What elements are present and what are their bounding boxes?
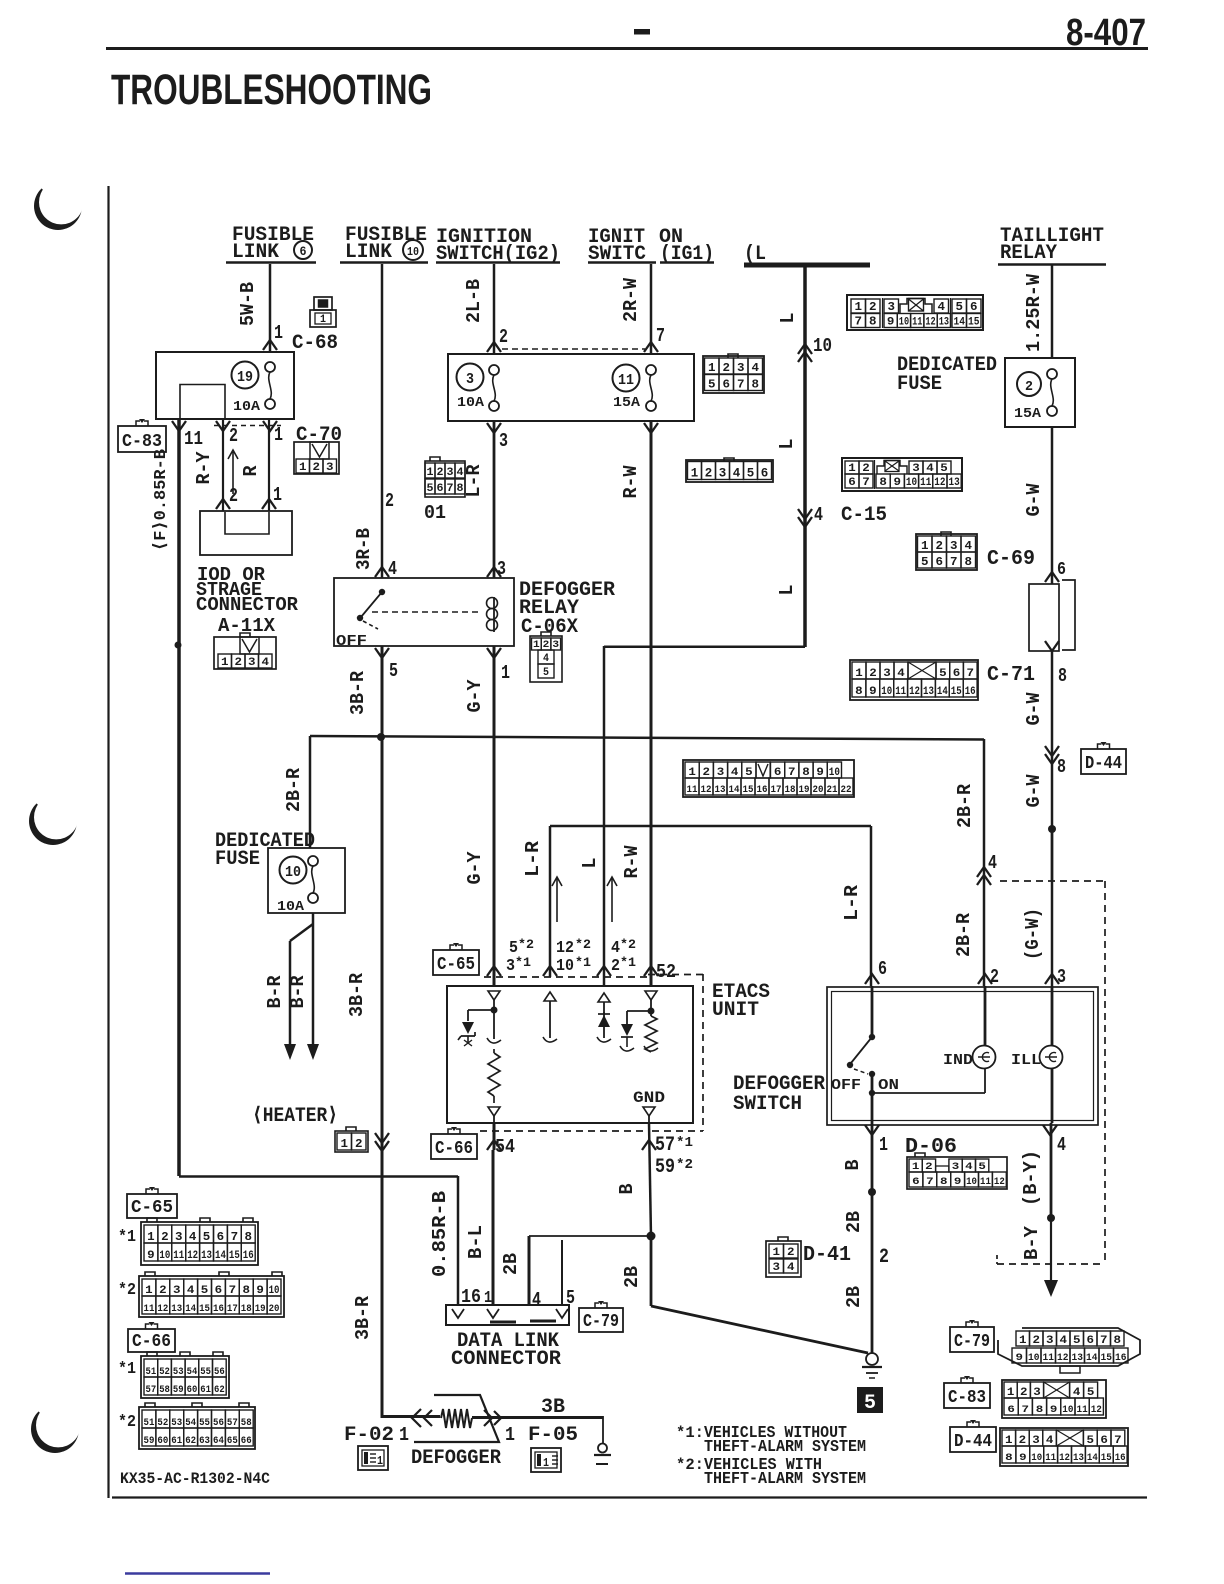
svg-text:(G-W): (G-W) [1022, 908, 1044, 960]
svg-text:L: L [579, 858, 601, 869]
svg-text:20: 20 [269, 1304, 280, 1315]
wire label 5W-B [237, 282, 259, 326]
ETACS dashed boundary right [648, 974, 703, 1131]
svg-text:57: 57 [146, 1385, 157, 1396]
fuse F11 rating 15A [613, 395, 641, 411]
svg-text:TROUBLESHOOTING: TROUBLESHOOTING [111, 66, 432, 114]
connector C-66 *1 pinout 12-pin [141, 1352, 229, 1398]
svg-text:14: 14 [1086, 1353, 1098, 1364]
svg-text:1: 1 [708, 361, 716, 375]
svg-text:2B-R: 2B-R [954, 783, 976, 828]
svg-text:10: 10 [269, 1285, 280, 1297]
pin label 1 [484, 1289, 492, 1308]
wire 3B-R from relay pin 5 [381, 646, 384, 1418]
svg-text:2L-B: 2L-B [463, 279, 485, 323]
svg-text:14: 14 [729, 785, 740, 796]
svg-text:01: 01 [424, 502, 446, 524]
svg-text:7: 7 [1114, 1435, 1122, 1447]
svg-text:6: 6 [761, 466, 769, 481]
svg-text:10: 10 [881, 686, 892, 698]
ground G1 [862, 1353, 882, 1378]
relay mechanical link dashes [372, 611, 480, 613]
pin 11 exit [172, 421, 203, 450]
svg-text:13: 13 [923, 686, 934, 698]
svg-text:*2: *2 [575, 937, 591, 952]
connector A-11X pinout [214, 633, 276, 669]
pin chevrons into ETACS [487, 966, 658, 976]
svg-text:*1: *1 [118, 1360, 136, 1379]
ETACS pin terminal L-R [543, 992, 557, 1042]
defogger grid element [414, 1395, 501, 1442]
wire label G-Y [464, 851, 486, 885]
wire label (F)0.85R-B [152, 449, 171, 551]
svg-text:8: 8 [940, 1177, 948, 1188]
connector pinout 6-pin (1-6) [686, 458, 773, 482]
switch contact [847, 986, 875, 1123]
svg-text:3: 3 [248, 657, 256, 669]
svg-text:R: R [240, 465, 262, 477]
wire label 3B [541, 1396, 565, 1419]
pin label 4*2 2*1 [611, 937, 636, 976]
svg-text:2: 2 [385, 490, 394, 512]
pin 1 exit of relay [487, 648, 510, 684]
svg-text:D-44: D-44 [1085, 754, 1122, 774]
wire (B-Y) from switch pin 4 [1050, 1123, 1053, 1218]
svg-text:6: 6 [723, 378, 731, 392]
svg-text:2: 2 [159, 1285, 167, 1297]
svg-text:14: 14 [1087, 1453, 1098, 1464]
svg-text:4: 4 [187, 1285, 195, 1297]
svg-text:RELAY: RELAY [1000, 242, 1057, 265]
pin 54 exit chevron [487, 1123, 501, 1150]
svg-text:G-Y: G-Y [464, 679, 486, 713]
svg-text:3R-B: 3R-B [353, 528, 375, 570]
wire label 2B-R [283, 767, 305, 812]
wire label G-W [1023, 483, 1045, 517]
connector C-65 *2 pinout 20-pin [139, 1272, 284, 1317]
svg-text:14: 14 [937, 686, 948, 698]
svg-text:FUSE: FUSE [215, 848, 260, 871]
svg-text:10A: 10A [233, 399, 261, 415]
lamp IND [943, 1046, 996, 1070]
svg-text:20: 20 [813, 785, 824, 796]
wire label 2R-W [620, 277, 642, 322]
svg-text:2: 2 [723, 361, 731, 375]
svg-text:3B-R: 3B-R [352, 1295, 374, 1340]
svg-text:65: 65 [227, 1436, 238, 1447]
svg-text:3: 3 [173, 1285, 181, 1297]
svg-text:7: 7 [231, 1230, 239, 1244]
svg-text:1: 1 [147, 1230, 155, 1244]
svg-text:8: 8 [1114, 1335, 1122, 1347]
ETACS resistor [488, 1049, 500, 1103]
lamp ILL [1011, 1046, 1063, 1070]
wire label G-W [1023, 774, 1045, 808]
label OFF inside relay [336, 633, 367, 650]
wire B-Y continues off page [1044, 1218, 1058, 1297]
svg-text:3: 3 [717, 767, 725, 779]
connector C-83 label [118, 419, 166, 452]
wire label 0.85R-B [429, 1191, 451, 1277]
label OFF [831, 1077, 861, 1094]
connector crossing pin 4 [977, 852, 997, 885]
svg-text:B: B [842, 1160, 864, 1171]
connector D-44 legend label [950, 1420, 996, 1452]
svg-text:2: 2 [990, 966, 999, 988]
connector C-65 legend label [127, 1187, 177, 1218]
svg-text:4: 4 [814, 504, 823, 526]
svg-text:1: 1 [773, 1247, 781, 1259]
svg-text:10: 10 [285, 864, 301, 881]
svg-text:9: 9 [147, 1250, 155, 1262]
label DEFOGGER [411, 1447, 501, 1470]
svg-text:4: 4 [787, 1262, 795, 1274]
svg-text:2B: 2B [500, 1253, 522, 1275]
wire 0.85R-B horizontal [179, 1176, 458, 1306]
svg-text:2B: 2B [843, 1211, 865, 1233]
label DEFOGGER RELAY C-06X [519, 579, 615, 639]
svg-text:3B-R: 3B-R [347, 670, 369, 715]
source label TAILLIGHT RELAY [998, 225, 1106, 265]
svg-text:1: 1 [879, 1134, 888, 1156]
wire label L-R [463, 464, 485, 498]
svg-text:3: 3 [1046, 1335, 1054, 1347]
svg-text:3: 3 [888, 300, 896, 314]
source label IGNITION SWITCH(IG2) [436, 226, 560, 266]
connector C-65 label [433, 943, 479, 975]
svg-text:61: 61 [200, 1385, 211, 1396]
svg-text:THEFT-ALARM SYSTEM: THEFT-ALARM SYSTEM [704, 1438, 866, 1457]
svg-text:5: 5 [939, 668, 947, 680]
svg-text:G-Y: G-Y [464, 851, 486, 885]
ground G2 [594, 1416, 611, 1464]
pin 4 into defogger relay [375, 558, 397, 580]
svg-text:7: 7 [950, 555, 958, 569]
label F-02 pin 1 [344, 1424, 409, 1447]
svg-text:5: 5 [1073, 1335, 1081, 1347]
svg-text:10A: 10A [457, 395, 485, 411]
svg-text:2: 2 [229, 425, 238, 447]
svg-text:59: 59 [144, 1436, 155, 1447]
svg-text:SWITCH: SWITCH [733, 1093, 802, 1116]
svg-text:6: 6 [1057, 560, 1066, 580]
wire label L [777, 313, 799, 324]
page number 8-407 [1066, 12, 1146, 54]
wire label R [240, 465, 262, 477]
label (HEATER) [252, 1105, 338, 1128]
ETACS pin terminal L [597, 993, 611, 1042]
wire 2R-W from ignition switch IG1 [650, 264, 653, 354]
note *2 [118, 1281, 136, 1300]
note *2 [118, 1413, 136, 1432]
wire G-W below fuse F2 [1051, 427, 1054, 584]
svg-text:5W-B: 5W-B [237, 282, 259, 326]
svg-text:19: 19 [799, 785, 810, 796]
svg-text:3: 3 [773, 1262, 781, 1274]
label F-05 pin 1 [505, 1424, 578, 1447]
svg-text:B-L: B-L [465, 1225, 487, 1259]
svg-text:1: 1 [505, 1424, 515, 1446]
wire 3B to ground [472, 1416, 603, 1419]
svg-text:8: 8 [879, 477, 887, 489]
pin 2 exit [216, 421, 238, 447]
wire L bend to ETACS [604, 646, 805, 986]
svg-text:16: 16 [1115, 1353, 1127, 1364]
source label FUSIBLE LINK (10) [340, 224, 428, 264]
page header dash [634, 29, 650, 35]
pin label 16 [461, 1286, 481, 1308]
wire label B-L [465, 1225, 487, 1259]
svg-text:13: 13 [949, 477, 961, 489]
pin label 5 [566, 1287, 575, 1309]
svg-text:2: 2 [611, 957, 620, 976]
wire B from switch pin 1 [871, 1123, 874, 1353]
svg-text:6: 6 [1100, 1435, 1108, 1447]
wire (G-W) into switch pin 3 [1051, 829, 1054, 986]
fuse F3 element [489, 365, 499, 411]
svg-text:10: 10 [1062, 1405, 1073, 1416]
svg-text:62: 62 [214, 1385, 225, 1396]
fuse F11 element [646, 365, 656, 411]
wire 2B-R horizontal distribution [310, 736, 984, 848]
svg-text:L-R: L-R [522, 840, 544, 877]
connector 1|2 pinout [335, 1127, 368, 1152]
svg-text:1: 1 [921, 539, 929, 553]
svg-text:2B: 2B [621, 1266, 643, 1288]
source label (L [744, 243, 766, 266]
svg-text:4: 4 [752, 361, 760, 375]
pin 3 into defogger relay [487, 558, 506, 580]
svg-text:1: 1 [688, 767, 696, 779]
fuse F11 designator [613, 365, 640, 392]
svg-text:2B-R: 2B-R [283, 767, 305, 812]
fuse F19 designator [232, 362, 259, 389]
svg-text:5: 5 [201, 1285, 209, 1297]
wire G-Y from relay pin 1 [493, 646, 496, 986]
svg-text:15: 15 [951, 686, 962, 698]
svg-text:5: 5 [708, 378, 716, 392]
footer code KX35-AC-R1302-N4C [120, 1470, 270, 1488]
svg-text:6: 6 [1087, 1335, 1095, 1347]
svg-text:13: 13 [1073, 1453, 1084, 1464]
wire label 3B-R [346, 972, 368, 1017]
svg-text:*1: *1 [515, 955, 531, 970]
svg-text:ILL: ILL [1011, 1052, 1041, 1069]
svg-text:3: 3 [1033, 1387, 1041, 1399]
svg-text:3: 3 [175, 1230, 183, 1244]
svg-text:1: 1 [221, 657, 229, 669]
wire R-W from fuse F11 to ETACS [650, 421, 653, 986]
svg-text:3: 3 [499, 430, 508, 452]
svg-text:58: 58 [159, 1385, 170, 1396]
svg-text:C-79: C-79 [583, 1312, 619, 1332]
svg-text:2: 2 [161, 1230, 169, 1244]
binder crescent 2 [23, 777, 97, 845]
svg-text:*2: *2 [676, 1157, 693, 1173]
svg-text:R-W: R-W [620, 465, 642, 499]
svg-text:D-06: D-06 [905, 1136, 957, 1159]
svg-text:11: 11 [980, 1177, 991, 1188]
svg-text:9: 9 [954, 1177, 962, 1188]
svg-text:15: 15 [968, 317, 980, 329]
pin label 52 [656, 961, 676, 983]
svg-text:UNIT: UNIT [712, 999, 759, 1022]
connector C-70 label and pinout [294, 424, 342, 474]
svg-text:C-79: C-79 [954, 1332, 990, 1352]
label DATA LINK CONNECTOR [451, 1330, 561, 1371]
svg-text:ON: ON [878, 1077, 899, 1094]
wire 2B diagonal to ground [651, 1306, 868, 1353]
defogger switch box [827, 987, 1098, 1125]
fuse F19 element [265, 362, 275, 409]
svg-text:16: 16 [243, 1250, 254, 1262]
wire label R-Y [193, 451, 215, 485]
svg-text:9: 9 [894, 477, 902, 489]
svg-text:15: 15 [743, 785, 754, 796]
svg-text:1: 1 [273, 484, 282, 506]
svg-text:4: 4 [532, 1289, 541, 1311]
relay switch contact [357, 589, 385, 629]
svg-text:15: 15 [1101, 1353, 1113, 1364]
direction arrow up [228, 450, 238, 494]
svg-text:1: 1 [274, 424, 283, 446]
connector C-70 boundary dashes [214, 425, 281, 427]
svg-text:8: 8 [752, 378, 760, 392]
svg-text:6: 6 [936, 555, 944, 569]
svg-text:9: 9 [1016, 1353, 1024, 1364]
svg-text:*1:: *1: [676, 1424, 704, 1442]
svg-text:13: 13 [201, 1250, 212, 1262]
connector pinout 16-pin C-71 [850, 660, 978, 700]
wire label 3B-R [352, 1295, 374, 1340]
header rule [106, 47, 1148, 50]
svg-text:F-05: F-05 [528, 1424, 578, 1447]
bottom page border [112, 1496, 1147, 1498]
label DEDICATED FUSE [897, 354, 997, 396]
svg-text:8: 8 [802, 767, 810, 779]
connector C-65 boundary dashes [484, 976, 648, 978]
wire 3B-R to defogger [382, 1415, 440, 1418]
connector F-05 icon [531, 1448, 561, 1472]
svg-text:1.25R-W: 1.25R-W [1023, 273, 1045, 352]
svg-text:1: 1 [145, 1285, 153, 1297]
svg-text:15: 15 [1101, 1453, 1112, 1464]
svg-text:57: 57 [655, 1134, 675, 1157]
wire B-L from ETACS pin 54 [492, 1150, 495, 1306]
svg-text:14: 14 [954, 317, 966, 329]
svg-text:11: 11 [144, 1304, 155, 1315]
svg-text:5: 5 [543, 667, 549, 679]
svg-text:1: 1 [484, 1289, 492, 1308]
junction block box with fuse 19 [156, 352, 294, 419]
connector pinout 13-pin C-15 [842, 458, 962, 491]
svg-text:7: 7 [862, 477, 870, 489]
svg-text:11: 11 [1077, 1405, 1088, 1416]
wire 1.25R-W from taillight relay [1051, 265, 1054, 358]
svg-text:12: 12 [909, 686, 920, 698]
svg-text:2: 2 [229, 485, 238, 507]
svg-text:C-68: C-68 [292, 332, 338, 355]
svg-text:2: 2 [936, 539, 944, 553]
svg-text:19: 19 [237, 369, 253, 386]
svg-text:IND: IND [943, 1052, 973, 1069]
svg-text:3: 3 [497, 558, 506, 580]
wire L vertical [803, 265, 807, 647]
pin label 12*2 10*1 [556, 937, 591, 976]
connector C-83 pinout 12-pin [1002, 1380, 1106, 1418]
svg-text:5: 5 [745, 767, 753, 779]
svg-text:13: 13 [939, 317, 950, 329]
svg-text:5: 5 [427, 483, 434, 495]
wire label 2B-R [953, 912, 975, 957]
svg-text:54: 54 [495, 1136, 515, 1158]
svg-text:4: 4 [897, 668, 905, 680]
svg-text:C-15: C-15 [841, 504, 887, 527]
svg-text:15A: 15A [1014, 406, 1042, 422]
svg-text:2: 2 [862, 463, 870, 475]
svg-text:G-W: G-W [1023, 774, 1045, 808]
svg-text:4: 4 [189, 1230, 197, 1244]
connector C-15 crossing [798, 504, 887, 527]
svg-text:9: 9 [816, 767, 824, 779]
svg-text:4: 4 [1073, 1387, 1081, 1399]
svg-text:59: 59 [173, 1385, 184, 1396]
pin 57/59 exit chevron [642, 1123, 656, 1237]
connector C-01 pinout [425, 457, 465, 497]
connector pinout 15-pin [847, 295, 983, 330]
wire label L [579, 858, 601, 869]
svg-text:3: 3 [1057, 966, 1066, 988]
svg-text:1: 1 [1019, 1335, 1027, 1347]
svg-text:21: 21 [827, 785, 838, 796]
junction dot on wire B [868, 1188, 876, 1196]
wire label G-Y [464, 679, 486, 713]
svg-text:OFF: OFF [336, 633, 367, 650]
connector F-02 icon [358, 1446, 388, 1470]
connector C-69 crossing [987, 548, 1066, 582]
svg-text:11: 11 [1043, 1353, 1055, 1364]
svg-text:16: 16 [757, 785, 768, 796]
svg-text:LINK: LINK [232, 241, 279, 264]
svg-text:7: 7 [447, 483, 454, 495]
svg-text:6: 6 [1007, 1405, 1015, 1416]
svg-text:11: 11 [912, 317, 923, 329]
pin 4 exit of switch [1043, 1125, 1066, 1156]
fuse F2 element [1047, 369, 1057, 416]
pin label 54 [495, 1136, 515, 1158]
svg-text:7: 7 [737, 378, 745, 392]
svg-text:10A: 10A [277, 899, 305, 915]
svg-text:5: 5 [940, 463, 948, 475]
svg-text:1: 1 [377, 1454, 383, 1468]
svg-text:LINK: LINK [345, 241, 392, 264]
svg-text:9: 9 [887, 317, 895, 329]
svg-text:G-W: G-W [1023, 483, 1045, 517]
wire label 2B [843, 1211, 865, 1233]
svg-text:6: 6 [912, 1177, 920, 1188]
svg-text:12: 12 [1057, 1353, 1069, 1364]
svg-text:4: 4 [611, 939, 620, 958]
svg-text:OFF: OFF [831, 1077, 861, 1094]
pin 2 into switch [978, 966, 999, 988]
defogger relay box [334, 578, 514, 646]
svg-text:3: 3 [737, 361, 745, 375]
junction 10 with chevrons [798, 335, 832, 362]
connector crossing 3B-R [375, 1133, 389, 1151]
pin 1 exit of switch [865, 1125, 888, 1156]
junction dot 3B-R x 2B-R [377, 733, 385, 741]
direction arrow up [607, 877, 617, 922]
